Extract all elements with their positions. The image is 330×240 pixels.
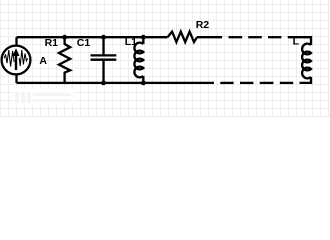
svg-text:L1: L1	[125, 36, 137, 48]
current source arrow head	[13, 48, 20, 56]
svg-text:L: L	[293, 36, 300, 48]
capacitor C1 bottom lead	[102, 61, 104, 83]
wire: left rail bottom lead	[15, 74, 17, 83]
capacitor C1 top lead	[102, 37, 104, 54]
wire: left rail top lead	[15, 37, 17, 46]
capacitor C1 top plate	[91, 54, 117, 56]
resistor R2 (horizontal, in top rail)	[168, 32, 198, 42]
wire: top rail left solid segment	[17, 36, 168, 38]
inductor L1 coil	[134, 43, 143, 78]
resistor R1 (vertical)	[59, 39, 70, 83]
wire: top rail dash 1	[229, 36, 243, 38]
inductor L1 bottom lead	[142, 76, 144, 83]
svg-text:R2: R2	[196, 19, 210, 31]
inductor L1 top lead	[142, 37, 144, 44]
current source I1 circle	[2, 46, 31, 75]
svg-text:C1: C1	[77, 37, 91, 49]
wire: bottom rail dash 1 (rightmost)	[280, 82, 293, 84]
wire: top right corner segment	[288, 37, 311, 45]
capacitor C1 bottom plate	[91, 59, 117, 61]
node dot: C1 top junction	[101, 35, 106, 40]
node dot: R1 top junction	[62, 35, 67, 40]
current source arrow shaft	[15, 53, 17, 70]
wire: bottom rail dash 2	[260, 82, 274, 84]
background grid	[0, 0, 330, 117]
svg-text:R1: R1	[45, 37, 59, 49]
node dot: C1 bottom junction	[101, 81, 106, 86]
svg-text:A: A	[39, 55, 47, 67]
node dot: L1 bottom junction	[141, 81, 146, 86]
wire: bottom rail dash 4	[220, 82, 233, 84]
wire: top rail dash 3	[268, 36, 281, 38]
current source noise waveform right	[19, 50, 28, 66]
wire: bottom rail dash 3	[240, 82, 253, 84]
node dot: L1 top junction	[141, 35, 146, 40]
wire: bottom rail solid segment	[17, 82, 214, 84]
wire: top rail right of R2 solid	[197, 36, 222, 38]
inductor L (right side, coil bulging left)	[302, 44, 311, 79]
faint watermark patch (bottom-left)	[13, 88, 74, 106]
current source noise waveform left	[4, 50, 14, 67]
wire: bottom right corner segment	[300, 77, 312, 83]
wire: top rail dash 2	[248, 36, 262, 38]
